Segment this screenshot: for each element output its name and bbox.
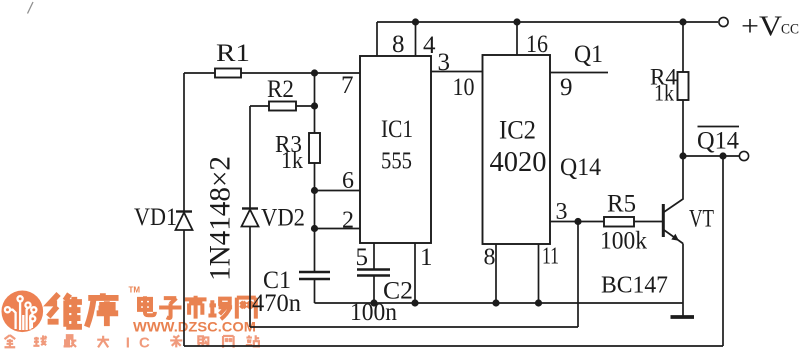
svg-text:100k: 100k [600, 228, 647, 255]
svg-text:CC: CC [781, 22, 799, 38]
svg-text:11: 11 [542, 244, 559, 270]
svg-text:1: 1 [420, 244, 433, 271]
svg-text:Q1: Q1 [574, 41, 603, 68]
svg-text:VT: VT [689, 206, 714, 233]
svg-text:Q14: Q14 [697, 128, 739, 155]
svg-text:IC2: IC2 [499, 116, 536, 145]
svg-text:10: 10 [453, 74, 475, 101]
svg-text:6: 6 [342, 168, 354, 194]
svg-text:I: I [126, 335, 130, 350]
svg-text:5: 5 [356, 244, 369, 271]
svg-text:+V: +V [741, 12, 782, 43]
svg-text:Q14: Q14 [560, 154, 601, 181]
svg-text:C: C [139, 335, 150, 350]
svg-text:VD1: VD1 [134, 204, 177, 231]
svg-text:470n: 470n [252, 290, 301, 317]
svg-text:7: 7 [341, 72, 354, 99]
svg-text:100n: 100n [350, 299, 397, 326]
svg-text:1k: 1k [281, 148, 303, 174]
svg-text:3: 3 [556, 199, 568, 225]
svg-text:R5: R5 [607, 191, 636, 218]
svg-text:3: 3 [438, 49, 451, 76]
svg-text:2: 2 [342, 208, 354, 234]
svg-text:8: 8 [392, 31, 405, 58]
svg-text:4: 4 [423, 32, 436, 59]
svg-text:TM: TM [129, 286, 141, 295]
svg-text:16: 16 [526, 31, 548, 58]
svg-text:R2: R2 [267, 76, 294, 103]
svg-text:555: 555 [381, 149, 412, 175]
svg-text:WWW.DZSC.COM: WWW.DZSC.COM [133, 320, 256, 335]
svg-text:1k: 1k [654, 81, 674, 106]
svg-text:4020: 4020 [490, 147, 547, 178]
svg-text:1N4148×2: 1N4148×2 [204, 156, 237, 281]
svg-text:IC1: IC1 [381, 116, 413, 143]
svg-text:BC147: BC147 [601, 273, 668, 299]
svg-text:8: 8 [484, 245, 496, 271]
svg-text:9: 9 [560, 74, 573, 101]
svg-text:VD2: VD2 [261, 205, 305, 232]
svg-text:R1: R1 [216, 40, 250, 67]
